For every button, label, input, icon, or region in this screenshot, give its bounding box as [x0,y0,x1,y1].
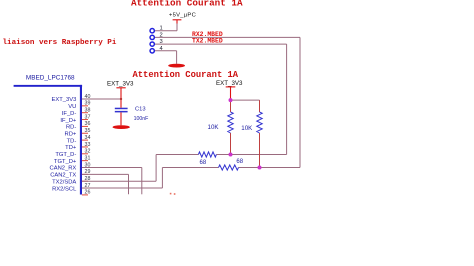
svg-text:TD-: TD- [67,138,77,144]
svg-text:68: 68 [200,160,207,166]
svg-text:TX2/SDA: TX2/SDA [52,179,76,185]
svg-text:TGT_D-: TGT_D- [55,152,76,158]
svg-text:RD-: RD- [66,125,76,131]
svg-text:68: 68 [236,159,243,165]
svg-text:1: 1 [160,26,163,32]
svg-text:Attention Courant 1A: Attention Courant 1A [133,70,239,80]
svg-text:CAN2_RX: CAN2_RX [50,166,77,172]
svg-text:RD+: RD+ [65,132,77,138]
svg-text:RX2/SCL: RX2/SCL [52,186,77,192]
svg-text:TX2.MBED: TX2.MBED [192,37,223,44]
svg-text:Attention Courant 1A: Attention Courant 1A [131,0,243,9]
svg-text:100nF: 100nF [134,116,149,122]
svg-text:3: 3 [160,39,163,45]
svg-text:VU: VU [68,104,76,110]
svg-text:2: 2 [160,32,163,38]
svg-text:EXT_3V3: EXT_3V3 [51,97,76,103]
svg-text:IF_D+: IF_D+ [60,118,77,124]
svg-text:liaison vers Raspberry Pi: liaison vers Raspberry Pi [3,39,117,47]
svg-text:CAN2_TX: CAN2_TX [50,173,76,179]
svg-text:TGT_D+: TGT_D+ [54,159,77,165]
svg-text:10K: 10K [208,124,220,131]
svg-text:10K: 10K [241,125,253,132]
svg-text:+5V_µPC: +5V_µPC [169,12,196,18]
svg-text:TD+: TD+ [65,145,77,151]
svg-text:IF_D-: IF_D- [62,111,77,117]
svg-text:EXT_3V3: EXT_3V3 [107,80,134,87]
svg-text:MBED_LPC1768: MBED_LPC1768 [26,74,75,81]
svg-text:C13: C13 [135,107,146,113]
svg-text:EXT_3V3: EXT_3V3 [216,80,243,87]
